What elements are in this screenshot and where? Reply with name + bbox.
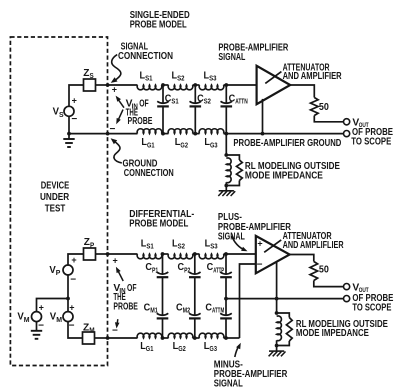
node VM junction [66, 297, 70, 301]
op-amp U1 attenuator-amplifier [257, 66, 291, 104]
node: ground connection [106, 132, 110, 136]
svg-text:DEVICE: DEVICE [41, 180, 70, 191]
wire RL1 coil bottom [225, 182, 227, 185]
svg-text:ATTN: ATTN [235, 99, 248, 106]
svg-text:50: 50 [319, 102, 329, 113]
node minus rail at CM2 [193, 336, 197, 340]
node RL1 bottom [224, 184, 228, 188]
svg-text:SIGNAL: SIGNAL [214, 379, 243, 390]
svg-text:S2: S2 [178, 244, 185, 251]
svg-text:−: − [71, 114, 77, 125]
inductor LG2 [168, 129, 193, 134]
ground under VS [68, 134, 70, 139]
resistor 50 (top model) [310, 98, 318, 116]
svg-text:P: P [56, 270, 61, 277]
inductor LG2 (diff) [168, 333, 193, 338]
node on top rail at CATTN [224, 83, 228, 87]
node on bottom rail at CS1 [161, 132, 165, 136]
svg-text:G3: G3 [210, 142, 218, 149]
source VM (grounded) [32, 312, 42, 322]
inductor RL1 coil [226, 158, 231, 183]
svg-text:+: + [112, 85, 117, 95]
node plus rail at CP2 [193, 252, 197, 256]
wire [162, 253, 169, 255]
inductor LS1 [137, 85, 162, 90]
svg-text:TO SCOPE: TO SCOPE [351, 136, 391, 147]
node on top rail at CS2 [193, 83, 197, 87]
svg-text:S1: S1 [171, 99, 178, 106]
wire: probe-amplifier ground rail [224, 133, 344, 135]
inductor LS3 [199, 85, 224, 90]
svg-text:MODE IMPEDANCE: MODE IMPEDANCE [296, 328, 369, 339]
svg-text:P: P [90, 242, 94, 249]
node: minus probe input [106, 336, 110, 340]
svg-text:M: M [56, 317, 62, 324]
capacitor CP1 and CM1 [162, 254, 164, 274]
inductor LG1 [137, 129, 162, 134]
node: attenuator cap midpoint [224, 297, 228, 301]
inductor LG3 (diff) [199, 333, 224, 338]
arrow to probe - input [118, 110, 124, 122]
node RL1 top [224, 153, 228, 157]
svg-text:+: + [112, 255, 117, 265]
node RL2 bottom [275, 344, 279, 348]
wire: bottom rail from VS ground to ladder [69, 133, 138, 135]
wire resistor to VOUT terminal [314, 116, 343, 122]
attenuator slash in U2 [264, 240, 281, 252]
svg-text:ATTP: ATTP [213, 267, 224, 274]
node: plus probe input [106, 252, 110, 256]
node plus rail at CP1 [161, 252, 165, 256]
wire LS1 to node [162, 84, 169, 86]
node on top rail at CS1 [161, 83, 165, 87]
inductor LS3 (diff) [199, 254, 224, 259]
inductor RL2 coil [277, 316, 282, 341]
wire LS3 to op-amp + input [224, 253, 256, 255]
arrow to diff + input [117, 269, 123, 281]
capacitor CATTP and CATTM [225, 254, 227, 274]
svg-text:UNDER: UNDER [40, 192, 70, 203]
svg-text:−: − [69, 320, 75, 331]
node: signal connection [106, 83, 110, 87]
svg-text:−: − [38, 320, 44, 331]
squiggle arrow to ground connection node [113, 140, 122, 163]
ground below RL2 [276, 346, 278, 351]
wire RL2 coil bottom [276, 340, 278, 345]
svg-text:P1: P1 [152, 267, 158, 274]
svg-text:S1: S1 [145, 76, 152, 83]
terminal scope ground (diff) [344, 296, 350, 302]
node on bottom rail at CATTN [224, 132, 228, 136]
svg-text:G1: G1 [146, 346, 154, 353]
node on bottom rail at CS2 [193, 132, 197, 136]
svg-text:PROBE-AMPLIFIER GROUND: PROBE-AMPLIFIER GROUND [233, 138, 341, 149]
arrow to probe + input [117, 98, 124, 108]
svg-text:50: 50 [319, 265, 329, 276]
svg-text:G2: G2 [180, 142, 188, 149]
svg-text:+: + [71, 255, 76, 265]
capacitor CS2 [194, 85, 196, 103]
capacitor CP2 and CM2 [194, 254, 196, 274]
wire U1 output to resistor [290, 85, 314, 98]
svg-text:S3: S3 [210, 244, 217, 251]
attenuator slash in U1 [265, 72, 281, 84]
svg-text:AND AMPLIFIER: AND AMPLIFIER [283, 71, 342, 82]
inductor LG1 (diff) [137, 333, 162, 338]
wire VP bottom to junction [67, 275, 69, 299]
svg-text:P2: P2 [184, 267, 190, 274]
squiggle arrow to signal connection node [112, 55, 121, 81]
resistor 50 (diff model) [310, 262, 318, 281]
svg-text:SIGNAL: SIGNAL [218, 52, 245, 63]
wire LS2 to node [193, 84, 200, 86]
wire LG2-LG3 [193, 133, 200, 135]
resistor RL1 branch [226, 155, 239, 160]
node minus rail at CATTM [224, 336, 228, 340]
svg-text:TEST: TEST [45, 203, 66, 214]
wire VP top to ZP [68, 254, 84, 265]
svg-text:S1: S1 [146, 244, 153, 251]
impedance ZM [83, 332, 95, 344]
impedance ZS [84, 79, 96, 91]
svg-text:G1: G1 [147, 142, 155, 149]
wire minus rail to corner [224, 337, 240, 339]
wire ZS to signal-connection node [96, 84, 108, 86]
svg-text:AND AMPLIFLIER: AND AMPLIFLIER [283, 240, 344, 251]
svg-text:PROBE MODEL: PROBE MODEL [130, 20, 187, 31]
source VM (series) [63, 312, 73, 322]
wire LG1-LG2 [162, 133, 169, 135]
inductor LG3 [199, 129, 224, 134]
arrow to diff - input [116, 319, 119, 326]
node plus rail at CATTP [224, 252, 228, 256]
ground under left VM [36, 322, 38, 331]
terminal VOUT (top) [344, 119, 350, 125]
svg-text:S2: S2 [177, 76, 184, 83]
svg-text:G3: G3 [209, 346, 217, 353]
wire VM to ZM [68, 322, 83, 338]
node minus rail at CM1 [161, 336, 165, 340]
wire U2 output to resistor [290, 255, 314, 262]
svg-text:M1: M1 [150, 308, 158, 315]
wire junction to right VM [67, 299, 69, 312]
wire: scope ground mid line [226, 298, 344, 300]
wire [193, 253, 200, 255]
svg-text:−: − [257, 259, 263, 270]
svg-text:OF: OF [139, 99, 149, 110]
svg-text:S2: S2 [204, 99, 211, 106]
curved arrow to minus riser [235, 345, 239, 357]
node at VS ground [67, 132, 71, 136]
wire U1 ground tap [262, 99, 264, 134]
svg-text:+: + [69, 303, 74, 313]
svg-text:M: M [89, 328, 95, 335]
wire [193, 337, 200, 339]
wire ZM to minus node [95, 337, 108, 339]
wire VS top to ZS [69, 85, 84, 106]
svg-text:G2: G2 [178, 346, 186, 353]
wire [162, 337, 169, 339]
svg-text:−: − [112, 326, 118, 337]
svg-text:+: + [257, 239, 262, 249]
node RL2 top [275, 311, 279, 315]
svg-text:MODE IMPEDANCE: MODE IMPEDANCE [245, 170, 323, 181]
svg-text:−: − [70, 274, 76, 285]
device-under-test dashed box [10, 37, 107, 366]
svg-text:+: + [39, 303, 44, 313]
wire VS bottom [68, 116, 70, 133]
ground below RL1 [225, 186, 227, 191]
svg-text:S: S [90, 73, 94, 80]
wire LS3 to op-amp input [224, 84, 257, 86]
svg-text:PROBE MODEL: PROBE MODEL [129, 218, 188, 229]
inductor LS2 (diff) [168, 254, 193, 259]
svg-text:M: M [24, 317, 30, 324]
impedance ZP [84, 248, 96, 260]
source VP [63, 265, 73, 275]
curved arrow to plus rail [232, 236, 245, 250]
svg-text:M2: M2 [183, 308, 191, 315]
capacitor CS1 [162, 85, 164, 103]
inductor LS1 (diff) [137, 254, 162, 259]
wire minus input riser [240, 264, 256, 338]
svg-text:OF: OF [127, 283, 137, 294]
wire CATTN node down to RL1 [225, 134, 227, 155]
op-amp U2 attenuator-amplifier [256, 236, 290, 273]
svg-text:PROBE: PROBE [113, 301, 138, 312]
wire ZP to plus node [96, 253, 108, 255]
resistor RL2 branch [277, 313, 290, 318]
svg-text:CONNECTION: CONNECTION [118, 51, 173, 62]
svg-text:ATTM: ATTM [212, 308, 224, 315]
svg-text:CONNECTION: CONNECTION [124, 168, 174, 179]
source VS [64, 106, 74, 116]
wire: top rail node to LS1 [108, 84, 138, 86]
node U2 ground on mid line [275, 297, 279, 301]
wire resistor to VOUT terminal (diff) [314, 281, 344, 287]
terminal VOUT (diff) [344, 284, 350, 290]
capacitor CATTN [225, 85, 227, 103]
wire: minus rail to LG1 [108, 337, 138, 339]
wire: plus rail to LS1 [108, 253, 138, 255]
inductor LS2 [168, 85, 193, 90]
node U1 ground on rail [261, 132, 265, 136]
terminal scope ground (top) [344, 131, 350, 137]
wire U2 ground tap [276, 262, 278, 313]
svg-text:PROBE: PROBE [128, 116, 153, 127]
svg-text:TO SCOPE: TO SCOPE [352, 302, 391, 313]
wire junction to left VM [37, 299, 69, 312]
svg-text:S: S [59, 112, 64, 119]
svg-text:S3: S3 [209, 76, 216, 83]
svg-text:+: + [72, 96, 77, 106]
